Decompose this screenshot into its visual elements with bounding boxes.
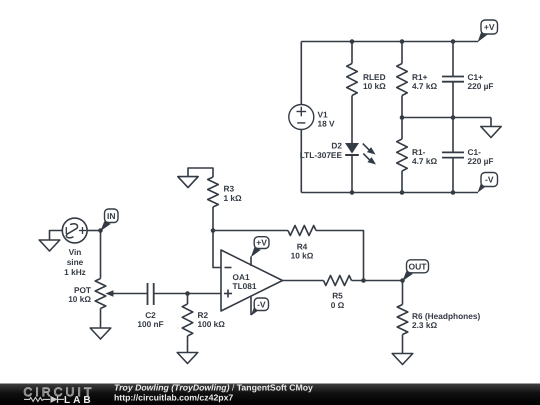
resistor R1+ 4.7 k	[397, 42, 438, 118]
wire IN node to POT	[100, 231, 102, 279]
ground POT	[90, 328, 111, 339]
resistor RLED 10 k	[347, 42, 386, 144]
node top-rail C1+ junction	[451, 39, 456, 44]
op-amp OA1 TL081	[221, 250, 283, 311]
resistor R6 headphones 2.3 k	[397, 305, 480, 354]
svg-text:4.7 kΩ: 4.7 kΩ	[412, 81, 437, 91]
wire V1 top lead	[300, 42, 302, 105]
svg-text:http://circuitlab.com/cz42px7: http://circuitlab.com/cz42px7	[114, 393, 233, 403]
svg-text:R3: R3	[224, 184, 235, 194]
wire top rail	[301, 41, 478, 43]
node bottom-rail C1- junction	[451, 190, 456, 195]
wire R5 to OUT	[352, 280, 403, 282]
svg-text:+V: +V	[484, 22, 495, 32]
node top-rail R1+ junction	[400, 39, 405, 44]
svg-text:sine: sine	[67, 257, 84, 267]
svg-text:+V: +V	[256, 238, 267, 248]
resistor R4 10 k	[288, 226, 316, 261]
svg-text:220 µF: 220 µF	[468, 156, 494, 166]
node bottom-rail D2 junction	[350, 190, 355, 195]
wire opamp -V pin	[250, 296, 252, 316]
wire V1 bottom lead	[300, 130, 302, 193]
resistor R2 100 k	[182, 294, 225, 353]
svg-text:220 µF: 220 µF	[468, 81, 494, 91]
flag +V net	[478, 32, 488, 42]
logo resistor-diode doodle	[24, 397, 50, 401]
wire POT bottom	[100, 309, 102, 329]
wire Vin left lead	[50, 231, 63, 241]
svg-text:4.7 kΩ: 4.7 kΩ	[412, 156, 437, 166]
resistor R5 0 ohm	[324, 276, 352, 310]
node R2 junction	[185, 291, 190, 296]
svg-text:10 kΩ: 10 kΩ	[291, 251, 314, 261]
wire middle rail	[402, 117, 491, 119]
node R4/R5 junction	[361, 278, 366, 283]
flag -V net	[478, 182, 488, 193]
flag IN net	[100, 221, 111, 231]
wire bottom rail	[301, 192, 478, 194]
wire POT wiper to C2	[113, 293, 148, 295]
wire OUT to R6	[402, 281, 404, 305]
svg-text:18 V: 18 V	[318, 119, 336, 129]
capacitor C2 100 nF	[137, 283, 163, 329]
svg-text:-V: -V	[485, 175, 494, 185]
svg-text:1 kHz: 1 kHz	[64, 267, 86, 277]
svg-text:TL081: TL081	[233, 281, 257, 291]
wire R4 to output node	[316, 231, 364, 281]
voltage source Vin sine 1kHz	[62, 218, 87, 277]
svg-text:10 kΩ: 10 kΩ	[363, 81, 386, 91]
svg-text:10 kΩ: 10 kΩ	[68, 294, 91, 304]
svg-text:2.3 kΩ: 2.3 kΩ	[412, 320, 437, 330]
svg-text:100 nF: 100 nF	[137, 319, 163, 329]
node top-rail RLED junction	[350, 39, 355, 44]
svg-text:1 kΩ: 1 kΩ	[224, 193, 243, 203]
flag OUT net	[402, 271, 413, 281]
node mid-rail R1 junction	[400, 115, 405, 120]
svg-text:100 kΩ: 100 kΩ	[198, 319, 226, 329]
wire junction to minus input	[213, 231, 221, 268]
flag +V opamp	[251, 247, 261, 257]
wire Vin to IN node	[87, 230, 100, 232]
flag -V opamp	[251, 306, 261, 316]
svg-text:0 Ω: 0 Ω	[331, 300, 345, 310]
svg-text:Vin: Vin	[69, 247, 82, 257]
voltage source V1	[289, 105, 335, 130]
wire R3 top to ground	[188, 168, 213, 177]
resistor R3 1 k	[208, 177, 242, 231]
node minus-input junction	[211, 228, 216, 233]
svg-text:LAB: LAB	[64, 395, 94, 405]
capacitor C1+ 220 uF	[442, 42, 494, 118]
node IN junction	[98, 228, 103, 233]
node mid-rail C1 junction	[451, 115, 456, 120]
wire ground stub	[490, 118, 492, 127]
LED D2 LTL-307EE	[300, 141, 376, 193]
resistor R1- 4.7 k	[397, 118, 438, 193]
svg-text:IN: IN	[107, 211, 116, 221]
svg-text:LTL-307EE: LTL-307EE	[300, 150, 343, 160]
node OUT junction	[400, 278, 405, 283]
potentiometer POT 10 k	[68, 279, 114, 309]
ground supply-midpoint	[481, 127, 501, 138]
wire minus node to R4	[213, 230, 288, 232]
wire opamp +V pin	[250, 257, 252, 267]
capacitor C1- 220 uF	[442, 118, 494, 193]
node bottom-rail R1- junction	[400, 190, 405, 195]
wire C2 to opamp + input	[154, 293, 221, 295]
ground R2	[177, 353, 198, 364]
ground R6	[392, 354, 413, 365]
svg-text:OUT: OUT	[409, 261, 428, 271]
svg-text:-V: -V	[257, 299, 266, 309]
svg-text:Troy Dowling (TroyDowling) / T: Troy Dowling (TroyDowling) / TangentSoft…	[114, 383, 313, 393]
wire opamp output	[283, 280, 324, 282]
ground Vin	[39, 240, 60, 251]
ground R3	[178, 177, 198, 188]
